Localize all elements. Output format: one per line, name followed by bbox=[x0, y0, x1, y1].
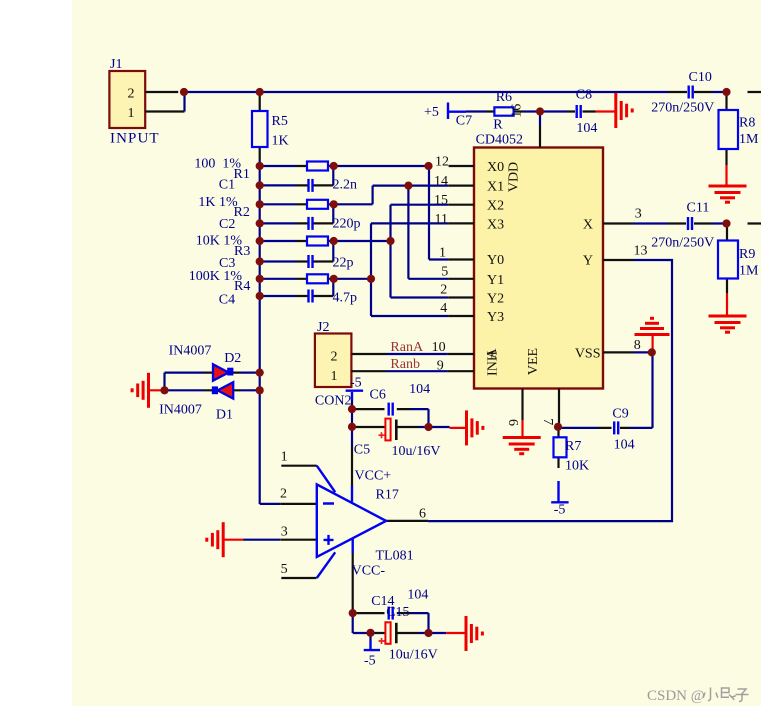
svg-text:C11: C11 bbox=[687, 200, 710, 215]
svg-text:VCC+: VCC+ bbox=[355, 469, 392, 484]
svg-text:1K 1%: 1K 1% bbox=[198, 195, 238, 210]
svg-text:5: 5 bbox=[441, 265, 448, 280]
svg-text:X3: X3 bbox=[487, 217, 504, 232]
svg-text:1: 1 bbox=[128, 106, 135, 121]
svg-text:270n/250V: 270n/250V bbox=[651, 101, 714, 116]
svg-text:1K: 1K bbox=[272, 134, 289, 149]
svg-text:C2: C2 bbox=[219, 217, 235, 232]
svg-text:R8: R8 bbox=[739, 115, 755, 130]
svg-text:5: 5 bbox=[281, 562, 288, 577]
svg-text:INPUT: INPUT bbox=[110, 131, 160, 147]
svg-text:INH: INH bbox=[486, 351, 501, 376]
svg-text:10: 10 bbox=[432, 340, 446, 355]
svg-text:16: 16 bbox=[510, 104, 525, 118]
svg-text:R3: R3 bbox=[234, 244, 250, 259]
svg-text:-5: -5 bbox=[350, 375, 362, 390]
svg-text:-5: -5 bbox=[554, 502, 566, 517]
svg-text:6: 6 bbox=[505, 419, 520, 426]
svg-text:CD4052: CD4052 bbox=[476, 133, 523, 148]
svg-text:Y: Y bbox=[583, 254, 593, 269]
svg-text:104: 104 bbox=[407, 588, 428, 603]
svg-text:X1: X1 bbox=[487, 180, 504, 195]
svg-text:10u/16V: 10u/16V bbox=[392, 444, 441, 459]
svg-text:J2: J2 bbox=[317, 320, 329, 335]
svg-text:X2: X2 bbox=[487, 199, 504, 214]
svg-text:Y1: Y1 bbox=[487, 273, 504, 288]
svg-text:10K: 10K bbox=[565, 459, 589, 474]
svg-text:R5: R5 bbox=[272, 114, 288, 129]
svg-text:VCC-: VCC- bbox=[352, 563, 386, 578]
svg-text:D2: D2 bbox=[224, 351, 241, 366]
svg-text:3: 3 bbox=[635, 207, 642, 222]
svg-text:Y2: Y2 bbox=[487, 292, 504, 307]
svg-text:TL081: TL081 bbox=[376, 549, 414, 564]
svg-text:9: 9 bbox=[437, 359, 444, 374]
svg-text:R9: R9 bbox=[739, 247, 755, 262]
svg-text:1: 1 bbox=[331, 369, 338, 384]
svg-text:12: 12 bbox=[435, 154, 449, 169]
svg-text:+5: +5 bbox=[424, 105, 439, 120]
svg-text:CSDN @: CSDN @ bbox=[647, 688, 705, 704]
svg-text:15: 15 bbox=[434, 193, 448, 208]
svg-text:C4: C4 bbox=[219, 293, 235, 308]
svg-text:2.2n: 2.2n bbox=[333, 177, 358, 192]
svg-text:4.7p: 4.7p bbox=[333, 291, 358, 306]
svg-text:RanA: RanA bbox=[390, 340, 424, 355]
svg-text:104: 104 bbox=[576, 121, 597, 136]
svg-text:Y0: Y0 bbox=[487, 253, 504, 268]
svg-text:4: 4 bbox=[440, 301, 447, 316]
svg-text:Ranb: Ranb bbox=[390, 357, 420, 372]
svg-text:R: R bbox=[493, 118, 503, 133]
svg-text:3: 3 bbox=[281, 525, 288, 540]
svg-text:IN4007: IN4007 bbox=[159, 403, 202, 418]
svg-text:2: 2 bbox=[440, 282, 447, 297]
svg-text:Y3: Y3 bbox=[487, 310, 504, 325]
svg-text:C1: C1 bbox=[219, 178, 235, 193]
svg-text:104: 104 bbox=[409, 382, 430, 397]
svg-text:C15: C15 bbox=[386, 605, 409, 620]
svg-text:R6: R6 bbox=[496, 90, 512, 105]
svg-text:X0: X0 bbox=[487, 160, 504, 175]
svg-text:R1: R1 bbox=[234, 167, 250, 182]
svg-text:13: 13 bbox=[634, 243, 648, 258]
svg-text:R7: R7 bbox=[565, 439, 581, 454]
svg-text:-5: -5 bbox=[364, 654, 376, 669]
svg-text:R2: R2 bbox=[234, 205, 250, 220]
svg-text:104: 104 bbox=[614, 438, 635, 453]
svg-text:1M: 1M bbox=[739, 132, 759, 147]
svg-text:14: 14 bbox=[434, 174, 448, 189]
svg-text:R4: R4 bbox=[234, 279, 250, 294]
svg-text:6: 6 bbox=[419, 506, 426, 521]
svg-text:D1: D1 bbox=[216, 407, 233, 422]
svg-text:2: 2 bbox=[128, 87, 135, 102]
svg-text:270n/250V: 270n/250V bbox=[651, 236, 714, 251]
svg-text:X: X bbox=[583, 217, 593, 232]
svg-text:J1: J1 bbox=[110, 57, 122, 72]
svg-text:220p: 220p bbox=[333, 217, 361, 232]
svg-text:VSS: VSS bbox=[575, 346, 601, 361]
svg-text:CON2: CON2 bbox=[315, 393, 352, 408]
svg-text:VDD: VDD bbox=[507, 162, 522, 192]
svg-text:2: 2 bbox=[331, 349, 338, 364]
svg-text:C6: C6 bbox=[370, 387, 386, 402]
svg-text:11: 11 bbox=[435, 212, 448, 227]
svg-text:7: 7 bbox=[540, 418, 555, 425]
svg-text:1: 1 bbox=[439, 246, 446, 261]
svg-text:1: 1 bbox=[281, 450, 288, 465]
svg-text:2: 2 bbox=[280, 486, 287, 501]
svg-text:IN4007: IN4007 bbox=[169, 344, 212, 359]
svg-text:C8: C8 bbox=[576, 88, 592, 103]
svg-text:22p: 22p bbox=[333, 256, 354, 271]
svg-text:C9: C9 bbox=[612, 406, 628, 421]
svg-text:C10: C10 bbox=[689, 70, 712, 85]
svg-text:10u/16V: 10u/16V bbox=[389, 648, 438, 663]
svg-text:R17: R17 bbox=[376, 488, 399, 503]
svg-text:VEE: VEE bbox=[526, 348, 541, 375]
svg-text:1M: 1M bbox=[739, 264, 759, 279]
svg-text:C5: C5 bbox=[354, 442, 370, 457]
svg-text:C7: C7 bbox=[456, 114, 472, 129]
svg-text:8: 8 bbox=[634, 338, 641, 353]
